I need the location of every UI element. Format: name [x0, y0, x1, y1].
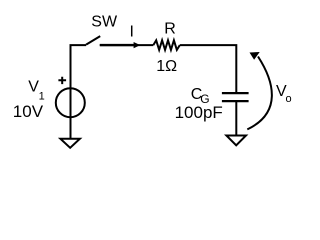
svg-text:o: o	[286, 93, 292, 105]
svg-text:I: I	[130, 23, 134, 40]
svg-text:SW: SW	[91, 13, 118, 30]
svg-text:1: 1	[39, 90, 45, 102]
svg-text:R: R	[164, 20, 176, 37]
svg-text:10V: 10V	[13, 102, 44, 121]
svg-text:1Ω: 1Ω	[156, 58, 177, 75]
svg-text:100pF: 100pF	[175, 103, 223, 122]
